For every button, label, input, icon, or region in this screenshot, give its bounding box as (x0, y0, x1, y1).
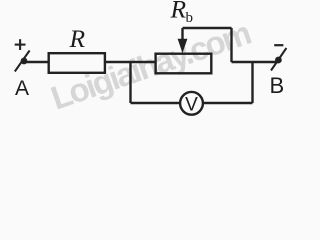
wire bottom left to voltmeter (131, 102, 180, 104)
svg-text:R: R (170, 0, 187, 24)
svg-text:A: A (15, 77, 29, 100)
wire right corner vertical (230, 28, 232, 62)
wire wiper top horizontal (183, 27, 232, 29)
terminal A (15, 51, 30, 72)
wire to terminal B (232, 61, 279, 63)
wire resistor R to rheostat (105, 61, 156, 63)
wire A to resistor R (24, 61, 49, 63)
wire voltmeter to bottom right (204, 102, 253, 104)
wire right branch down to voltmeter loop (251, 62, 253, 103)
wire wiper vertical (181, 28, 183, 41)
svg-text:b: b (186, 10, 194, 26)
resistor R1 box (49, 53, 105, 73)
wiper arrowhead (178, 39, 188, 53)
svg-text:V: V (185, 94, 198, 115)
svg-text:B: B (269, 73, 284, 98)
svg-text:R: R (69, 24, 86, 53)
wire left branch down to voltmeter loop (129, 62, 131, 103)
terminal B (271, 48, 286, 71)
label + (15, 39, 26, 50)
voltmeter V (180, 92, 203, 115)
rheostat Rb box (156, 54, 212, 74)
label minus (274, 44, 283, 46)
